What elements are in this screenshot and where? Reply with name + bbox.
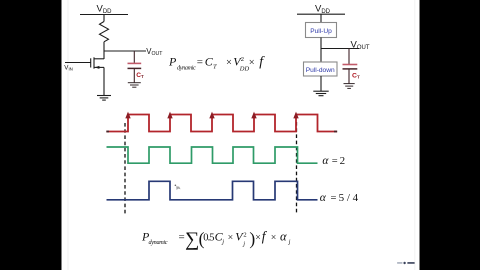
transistor Q1 source stub [94, 66, 104, 68]
wire cap to ground right [348, 69, 350, 84]
svg-text:α: α [280, 230, 287, 244]
ground GND4 [344, 84, 355, 89]
capacitor C1 bottom plate [128, 67, 142, 69]
red edge arrow 2 [167, 112, 172, 119]
cursor artifact [175, 185, 181, 191]
wire node to VOUT [104, 50, 146, 52]
red edge arrow 3 [209, 112, 214, 119]
formula P_dynamic = sum(0.5Cj x Vj^2) x f x alpha_j [141, 228, 291, 250]
waveform alpha=5/4 (blue) [107, 181, 318, 200]
svg-text:=: = [179, 232, 185, 244]
svg-text:2: 2 [241, 56, 244, 63]
svg-text:×: × [228, 233, 234, 244]
red wave right end tip [334, 131, 337, 133]
svg-text:j: j [288, 239, 291, 246]
wire VDD drop to resistor [103, 15, 105, 22]
pull-up box U1 [306, 23, 337, 38]
capacitor C2 top plate [343, 64, 358, 66]
waveform alpha=2 (green) [107, 147, 318, 163]
svg-text:∑: ∑ [185, 228, 199, 250]
ground GND2 [128, 83, 141, 88]
pull-down box U2 [304, 62, 338, 76]
svg-text:×: × [249, 58, 255, 69]
capacitor C2 bottom plate [343, 68, 358, 70]
wire VDD rail right [297, 13, 345, 15]
svg-text:5 / 4: 5 / 4 [339, 192, 359, 204]
svg-text:T: T [213, 63, 217, 70]
capacitor C2 (CT) right [343, 49, 358, 89]
wire source to ground [103, 67, 105, 95]
svg-text:×: × [255, 233, 261, 244]
red edge arrow 4 [251, 112, 256, 119]
svg-text:α: α [322, 155, 329, 167]
transistor Q1 source arrow [95, 66, 100, 69]
resistor R1 [100, 22, 109, 42]
svg-text:j: j [221, 239, 224, 246]
svg-text:dynamic: dynamic [177, 64, 196, 71]
svg-text:P: P [168, 55, 177, 69]
svg-text:=: = [331, 193, 337, 204]
formula P_dynamic = CT x VDD^2 x f [168, 55, 265, 73]
capacitor C1 (CT) left [128, 51, 142, 87]
wire rail to pull-up box [320, 14, 322, 22]
ground GND3 [313, 90, 328, 92]
waveform clock (red) [107, 115, 338, 132]
transistor Q1 drain stub [94, 58, 104, 60]
wire node to VOUT right [321, 48, 359, 50]
wire cap to ground [133, 68, 135, 82]
transistor Q1 gate bar [90, 58, 92, 67]
transistor Q1 channel bar [93, 57, 95, 68]
svg-text:=: = [332, 156, 338, 167]
svg-text:dynamic: dynamic [149, 239, 168, 246]
svg-text:2: 2 [340, 155, 346, 167]
svg-text:Pull-Up: Pull-Up [310, 28, 332, 35]
wire node down to cap right [348, 49, 350, 65]
label alpha = 2 [322, 155, 345, 167]
wire gate [65, 62, 91, 64]
capacitor C1 top plate [128, 62, 142, 64]
svg-text:2: 2 [243, 231, 246, 238]
svg-text:=: = [197, 57, 203, 69]
ground GND1 [97, 95, 111, 97]
svg-text:×: × [226, 58, 232, 69]
svg-text:Pull-down: Pull-down [306, 67, 335, 74]
watermark [397, 262, 415, 264]
svg-text:0.5: 0.5 [203, 233, 214, 244]
red edge arrow 5 [293, 112, 298, 119]
dashed marker line left [124, 123, 126, 214]
label alpha = 5/4 [320, 192, 359, 204]
wire resistor to drain [103, 42, 105, 59]
svg-text:j: j [242, 240, 245, 247]
svg-text:α: α [320, 192, 327, 204]
svg-text:×: × [271, 233, 277, 244]
wire pull-down to ground [320, 76, 322, 91]
wire VDD rail left [80, 14, 128, 16]
dashed marker line right [296, 122, 298, 215]
red wave left end tip [106, 131, 109, 133]
red edge arrow 1 [125, 112, 130, 119]
wire VOUT node down to cap [133, 51, 135, 63]
wire pull-up to pull-down [320, 38, 322, 63]
